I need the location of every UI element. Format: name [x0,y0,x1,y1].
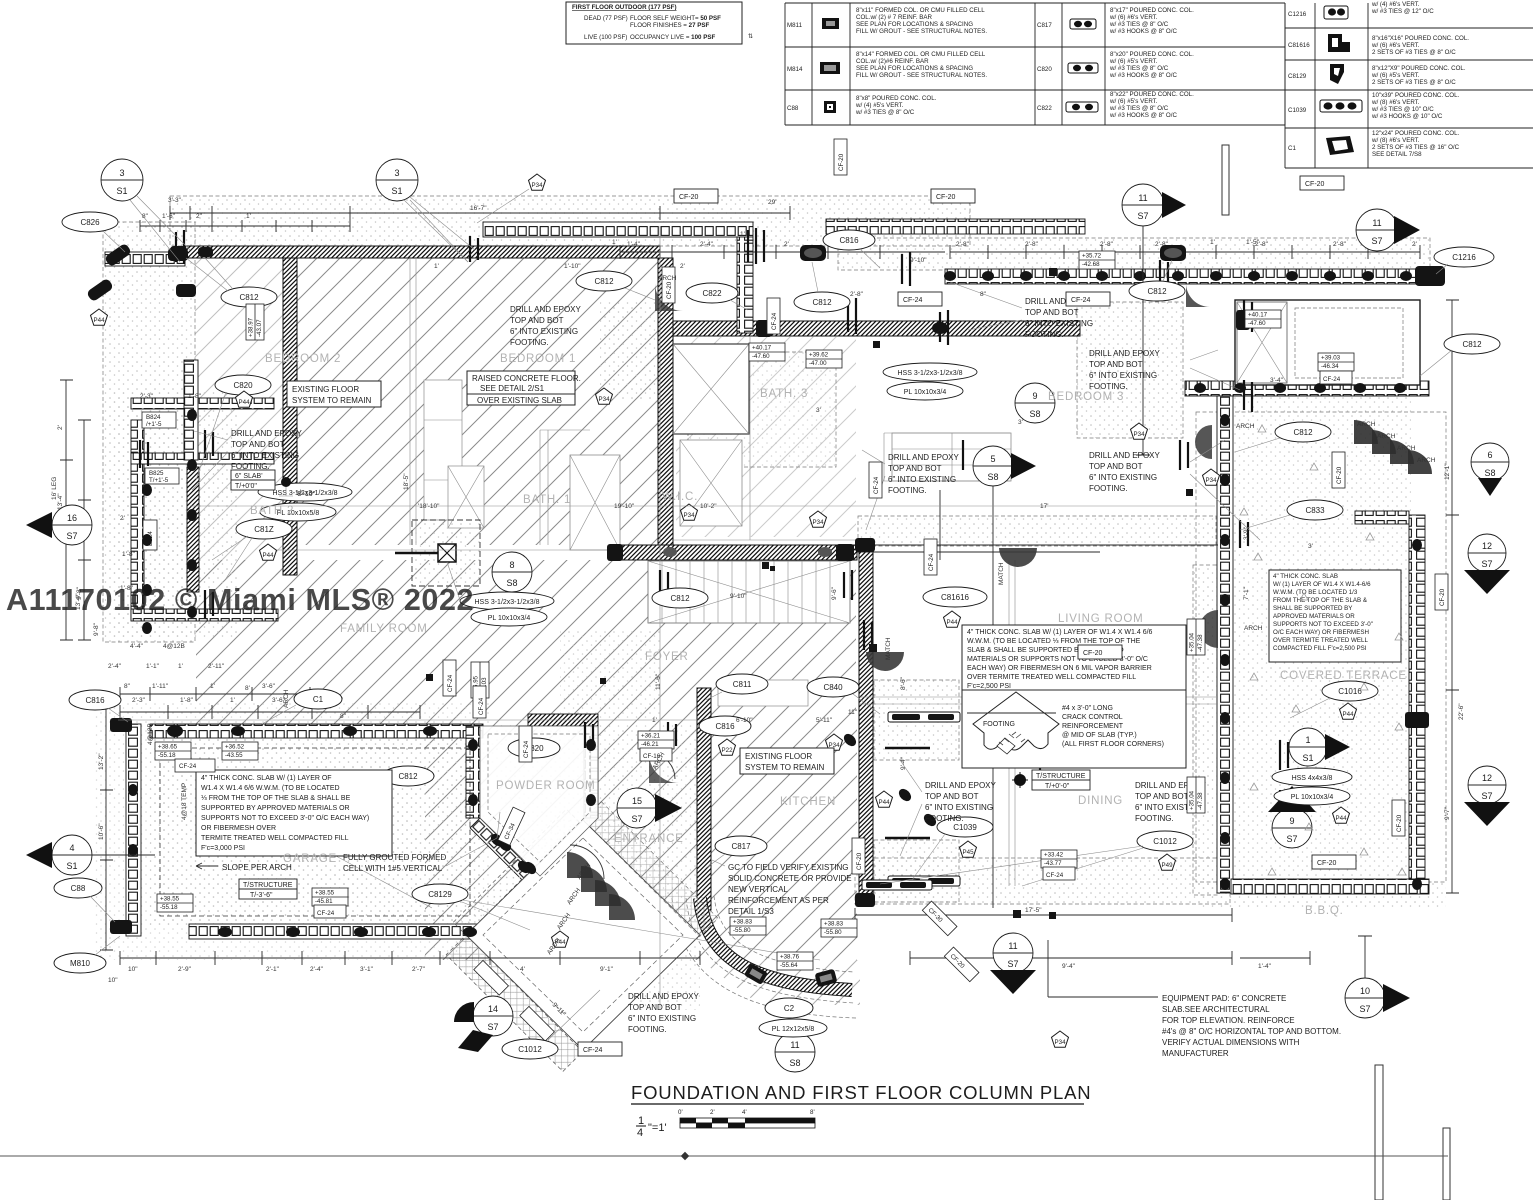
gc note [712,860,852,916]
svg-text:1'-8": 1'-8" [180,697,194,704]
svg-text:8': 8' [810,1109,815,1116]
svg-text:CF-20: CF-20 [666,281,673,299]
svg-text:GC TO FIELD VERIFY EXISTING: GC TO FIELD VERIFY EXISTING [728,863,848,872]
svg-text:DINING: DINING [1078,795,1123,807]
svg-text:+35.72: +35.72 [1082,253,1102,260]
svg-text:w/ #3 TIES @ 8" O/C: w/ #3 TIES @ 8" O/C [1109,21,1169,28]
svg-text:COL.w/ (2)#6 REINF. BAR: COL.w/ (2)#6 REINF. BAR [856,58,929,65]
svg-text:PL 10x10x3/4: PL 10x10x3/4 [1291,794,1334,801]
svg-text:P44: P44 [238,399,250,406]
svg-text:C81616: C81616 [1288,42,1310,49]
svg-text:CF-20: CF-20 [1439,588,1446,606]
svg-text:DRILL AND EPOXY: DRILL AND EPOXY [1089,451,1161,460]
svg-text:BEDROOM 3: BEDROOM 3 [1048,391,1124,403]
svg-text:w/ (6) #6's VERT.: w/ (6) #6's VERT. [1371,42,1420,49]
svg-text:CF-24: CF-24 [1323,376,1341,383]
garage top dims [120,705,420,719]
svg-text:6" INTO EXISTING: 6" INTO EXISTING [231,451,299,460]
svg-text:17'-5": 17'-5" [1025,907,1042,914]
svg-text:T/+0'0": T/+0'0" [235,483,257,490]
LAYER: labels [51,231,1436,1018]
section circle 11/S7 right-top [1356,209,1420,251]
svg-text:1': 1' [210,683,215,690]
section circle 11/S7 center-top [1122,184,1186,455]
svg-text:OVER EXISTING SLAB: OVER EXISTING SLAB [477,396,562,405]
section circle 9/S7 [1268,786,1316,848]
svg-text:CF-24: CF-24 [928,553,935,571]
section circle 11/S7 bottom [990,933,1036,994]
svg-text:CF-20: CF-20 [856,852,863,870]
columns W13 vertical [1412,539,1422,551]
svg-text:S7: S7 [1286,834,1297,844]
LAYER: dots [95,196,1446,1010]
svg-text:CELL WITH 1#5 VERTICAL: CELL WITH 1#5 VERTICAL [343,864,443,873]
dim row top right [950,245,1420,259]
svg-text:DRILL AND EPOXY: DRILL AND EPOXY [231,429,303,438]
svg-text:10: 10 [1360,986,1370,996]
svg-text:MANUFACTURER: MANUFACTURER [1162,1049,1229,1058]
arch arc top wic [655,283,683,311]
svg-text:TOP AND BOT: TOP AND BOT [231,440,285,449]
big corner columns top right [1415,266,1445,286]
svg-text:'8'-10": '8'-10" [296,491,316,498]
section cut line left [410,200,468,262]
elevation tags [1079,251,1115,269]
left vert dim [60,380,73,640]
columns bedroom3 bottom band [1194,383,1206,393]
wall left W2 [283,258,297,575]
slope per arch [196,863,292,872]
svg-text:FROM THE TOP OF THE SLAB &: FROM THE TOP OF THE SLAB & [1273,597,1368,604]
svg-text:S8: S8 [1029,409,1040,419]
svg-text:w/ #3 HOOKS @ 8" O/C: w/ #3 HOOKS @ 8" O/C [1109,28,1177,35]
drill note 3 [950,282,1097,339]
svg-text:T/+1'-5: T/+1'-5 [149,477,169,484]
svg-text:9: 9 [1289,816,1294,826]
svg-text:4" THICK CONC. SLAB: 4" THICK CONC. SLAB [1273,573,1338,580]
svg-text:ARCH: ARCH [1377,433,1396,440]
cells garage left vertical [126,724,141,936]
LAYER: title [631,1082,1091,1139]
svg-text:C812: C812 [1462,340,1482,349]
svg-text:GARAGE: GARAGE [283,853,337,865]
svg-text:1': 1' [612,239,617,246]
svg-text:ENTRANCE: ENTRANCE [614,833,684,845]
top-right room square [1235,300,1420,385]
svg-text:-55.18: -55.18 [158,752,176,759]
svg-text:C81Z: C81Z [254,525,274,534]
svg-text:OR FIBERMESH OVER: OR FIBERMESH OVER [201,825,276,832]
svg-text:SUPPORTED BY APPROVED MATERIAL: SUPPORTED BY APPROVED MATERIALS OR [201,805,350,812]
svg-text:9'-4": 9'-4" [1062,963,1076,970]
svg-text:8": 8" [980,291,987,298]
svg-text:S7: S7 [66,531,77,541]
svg-text:S7: S7 [1359,1004,1370,1014]
svg-text:(ALL FIRST FLOOR CORNERS): (ALL FIRST FLOOR CORNERS) [1062,741,1164,748]
wic lines [673,336,860,540]
svg-text:CF-24: CF-24 [523,740,530,758]
existing floor box 2 [740,748,834,774]
left vert garage dim [100,700,113,950]
svg-text:C826: C826 [80,218,100,227]
svg-text:-43.77: -43.77 [1044,860,1062,867]
svg-text:PL 10x10x3/4: PL 10x10x3/4 [904,389,947,396]
section circle 15/S7 [617,788,682,828]
6" slab box [231,470,316,498]
cells band B1 vert [737,237,753,333]
svg-text:C88: C88 [71,884,86,893]
svg-text:0': 0' [678,1109,683,1116]
svg-text:+36.21: +36.21 [641,733,661,740]
svg-text:HSS 3-1/2x3-1/2x3/8: HSS 3-1/2x3-1/2x3/8 [898,370,963,377]
dim line top main [170,206,790,220]
svg-text:12'-1": 12'-1" [1444,463,1451,480]
garage interior stipple [150,738,480,928]
svg-text:C817: C817 [731,842,751,851]
cells left mid rows [131,398,274,409]
svg-text:w/ (4) #5's VERT.: w/ (4) #5's VERT. [855,102,904,109]
svg-text:CRACK CONTROL: CRACK CONTROL [1062,714,1123,721]
svg-text:3: 3 [119,168,124,178]
wall bath3 top W7 [673,321,1080,336]
entrance bottom columns on curve [744,963,768,985]
svg-text:2'-4": 2'-4" [108,663,122,670]
svg-text:2": 2" [196,213,203,220]
dim line top sub [140,220,350,232]
svg-text:w/ #3 TIES @ 8" O/C: w/ #3 TIES @ 8" O/C [855,109,915,116]
svg-text:3'-4": 3'-4" [1270,377,1284,384]
svg-text:DRILL AND EPOXY: DRILL AND EPOXY [888,453,960,462]
terrace outer dash frame [1196,412,1446,882]
svg-text:+40.17: +40.17 [752,345,772,352]
svg-text:C1012: C1012 [518,1045,542,1054]
svg-text:1'-8": 1'-8" [122,551,136,558]
svg-text:ARCH: ARCH [283,689,290,708]
svg-text:C1039: C1039 [1288,107,1307,114]
LAYER: floorhatch [195,258,860,1005]
svg-text:F'c=2,500 PSI: F'c=2,500 PSI [967,683,1011,690]
svg-text:MATCH: MATCH [885,637,892,660]
svg-text:S7: S7 [1371,236,1382,246]
svg-text:C88: C88 [787,105,799,112]
svg-text:-55.80: -55.80 [824,929,842,936]
garage outer stipple [95,700,490,960]
svg-text:ARCH: ARCH [658,275,677,282]
floor hatch kitchen / entrance block [425,724,857,960]
svg-text:P44: P44 [878,799,890,806]
bedroom1 dotted patch [600,300,660,400]
svg-text:ARCH: ARCH [1236,423,1255,430]
svg-text:DRILL AND EPOXY: DRILL AND EPOXY [628,992,700,1001]
svg-text:TOP AND BOT: TOP AND BOT [628,1003,682,1012]
svg-text:-55.80: -55.80 [733,927,751,934]
svg-text:SEE DETAIL 2/S1: SEE DETAIL 2/S1 [480,384,545,393]
svg-text:w/ #3 TIES @ 12" O/C: w/ #3 TIES @ 12" O/C [1371,8,1434,15]
powder room octagon [480,726,598,876]
svg-text:CF-24: CF-24 [179,763,197,770]
svg-text:T/STRUCTURE: T/STRUCTURE [243,882,293,889]
svg-text:-47.00: -47.00 [809,360,827,367]
svg-text:19'-10": 19'-10" [614,503,635,510]
columns at W10 [855,538,875,552]
floor hatch bedroom2+bedroom1 block [297,258,658,545]
living room long lines [858,697,1218,704]
columns on W6 cells row [944,271,956,281]
wall interior W9 [610,545,857,560]
svg-text:C820: C820 [1037,66,1052,73]
cells garage bottom [189,924,483,939]
svg-text:ARCH: ARCH [1357,421,1376,428]
svg-text:+36.52: +36.52 [225,744,245,751]
svg-text:DRILL AND EPOXY: DRILL AND EPOXY [1089,349,1161,358]
svg-text:2 SETS OF #3 TIES @ 16" O/C: 2 SETS OF #3 TIES @ 16" O/C [1372,144,1460,151]
drill note 7 [900,760,997,856]
dim row mid cells [620,245,945,259]
svg-text:1'-4": 1'-4" [627,241,641,248]
svg-text:P44: P44 [262,552,274,559]
svg-text:TERMITE TREATED WELL COMPACTED: TERMITE TREATED WELL COMPACTED FILL [201,835,349,842]
svg-text:10": 10" [108,977,118,984]
t/structure dining [1012,770,1090,790]
columns garage left [110,718,132,732]
powder diag cells lower-left [470,818,542,890]
svg-text:SEE PLAN FOR LOCATIONS & SPACI: SEE PLAN FOR LOCATIONS & SPACING [856,21,973,28]
svg-text:/+1'-5: /+1'-5 [146,421,162,428]
svg-text:C840: C840 [823,683,843,692]
svg-text:-43.55: -43.55 [225,752,243,759]
fully grouted note [343,812,500,873]
floor hatch bath3 strip light [676,337,856,537]
svg-text:TOP AND BOT: TOP AND BOT [1025,308,1079,317]
svg-text:ARCH: ARCH [1397,445,1416,452]
svg-text:CF-20: CF-20 [936,194,956,201]
svg-text:+38.97: +38.97 [248,317,255,337]
section circle 12/S7 b [1464,766,1510,826]
svg-text:w/ #3 HOOKS @ 8" O/C: w/ #3 HOOKS @ 8" O/C [1109,72,1177,79]
svg-text:REINFORCEMENT AS PER: REINFORCEMENT AS PER [728,896,829,905]
load table [566,2,742,44]
svg-text:w/ #3 TIES @ 10" O/C: w/ #3 TIES @ 10" O/C [1371,106,1434,113]
svg-text:2'-11": 2'-11" [208,663,225,670]
svg-text:+38.76: +38.76 [780,954,800,961]
table 3 [1285,3,1533,168]
table 1 [785,3,1035,125]
svg-text:P22: P22 [721,747,733,754]
svg-text:BATH. 1: BATH. 1 [523,494,571,506]
pentagon P34 top [477,174,546,223]
svg-text:TOP AND BOT: TOP AND BOT [1135,792,1189,801]
svg-text:3': 3' [1308,543,1313,550]
svg-text:P49: P49 [1161,862,1173,869]
cells long top right W6 [945,269,1419,284]
cells left mid vertical a [131,420,144,620]
bottom dims dining [855,908,1232,922]
svg-text:C812: C812 [1293,428,1313,437]
svg-text:+38.83: +38.83 [824,921,844,928]
section cut line center [659,226,661,1010]
svg-text:FILL W/ GROUT - SEE STRUCTURAL: FILL W/ GROUT - SEE STRUCTURAL NOTES. [856,28,987,35]
svg-text:COMPACTED FILL F'c=2,500 PSI: COMPACTED FILL F'c=2,500 PSI [1273,645,1367,652]
svg-text:COVERED TERRACE: COVERED TERRACE [1280,670,1407,682]
columns left mid strips [142,484,152,496]
svg-text:+35.04: +35.04 [1189,632,1196,652]
section circle 3/S1 b [376,159,475,262]
svg-text:10'-2": 10'-2" [700,503,717,510]
svg-text:S8: S8 [987,472,998,482]
svg-text:2'-8": 2'-8" [1333,241,1347,248]
svg-text:RAISED CONCRETE FLOOR.: RAISED CONCRETE FLOOR. [472,374,581,383]
svg-text:@ MID OF SLAB (TYP.): @ MID OF SLAB (TYP.) [1062,732,1137,739]
svg-text:2'-4": 2'-4" [700,241,714,248]
svg-text:S7: S7 [487,1022,498,1032]
svg-text:C811: C811 [733,680,752,689]
bath1 fixtures [892,433,1011,481]
svg-text:DEAD (77 PSF): DEAD (77 PSF) [584,15,628,22]
svg-text:F'c=3,000 PSI: F'c=3,000 PSI [201,845,245,852]
bedroom3 dotted patch [1077,302,1183,438]
svg-text:C1: C1 [1288,145,1296,152]
svg-text:CF-20: CF-20 [1396,814,1403,832]
svg-text:'18'-10": '18'-10" [418,503,440,510]
hatch strip left mid [187,467,199,592]
svg-text:8"x14" FORMED COL. OR CMU FILL: 8"x14" FORMED COL. OR CMU FILLED CELL [856,51,986,58]
svg-text:SEE PLAN FOR LOCATIONS & SPACI: SEE PLAN FOR LOCATIONS & SPACING [856,65,973,72]
sheet strip top right [1222,145,1229,215]
svg-text:M811: M811 [787,22,803,29]
svg-text:P34: P34 [1054,1039,1066,1046]
svg-text:1'-4": 1'-4" [1258,963,1272,970]
wall wic-left W8 [658,258,673,560]
svg-text:FOOTING.: FOOTING. [1089,484,1128,493]
svg-text:BATH 2: BATH 2 [250,505,294,517]
svg-text:-45.81: -45.81 [315,898,333,905]
section circle 6/S8 [1471,443,1509,496]
svg-text:OCCUPANCY LIVE = 100 PSF: OCCUPANCY LIVE = 100 PSF [630,34,715,41]
svg-text:CF-24: CF-24 [903,297,923,304]
svg-text:CF-24: CF-24 [583,1047,603,1054]
svg-text:6: 6 [1487,450,1492,460]
svg-text:2': 2' [120,515,125,522]
svg-text:TOP AND BOT: TOP AND BOT [888,464,942,473]
svg-text:FOOTING.: FOOTING. [1025,330,1064,339]
svg-text:SYSTEM TO REMAIN: SYSTEM TO REMAIN [292,396,371,405]
svg-text:BEDROOM 1: BEDROOM 1 [500,353,576,365]
svg-text:C812: C812 [812,298,832,307]
bedroom3 left dotted [688,352,836,467]
arch semicircle W12 a [1195,425,1212,459]
svg-text:2'-3": 2'-3" [140,393,154,400]
svg-text:P34: P34 [1133,431,1145,438]
powder room top wall [528,714,598,726]
bedroom divider thin wall [410,258,416,545]
svg-text:S7: S7 [1007,959,1018,969]
drill note 4 [1089,349,1240,391]
svg-text:LIVE (100 PSF): LIVE (100 PSF) [584,34,627,41]
svg-text:-55.18: -55.18 [160,904,178,911]
section circle 5/S8 [973,446,1036,908]
svg-text:C1: C1 [313,695,324,704]
ellipse callouts [62,212,125,252]
svg-text:4@18 TEMP: 4@18 TEMP [181,783,188,820]
covered terrace stipple [1233,397,1411,893]
svg-text:2'-8": 2'-8" [956,241,970,248]
wall top W1 [184,246,660,258]
svg-text:2'-8": 2'-8" [850,291,864,298]
svg-text:-47.38: -47.38 [1197,634,1204,652]
table 2 [1035,3,1285,125]
rebar ticks on top wall [140,228,1288,838]
kitchen right beams dotted [874,680,959,760]
svg-text:FOOTING.: FOOTING. [628,1025,667,1034]
svg-text:⅓ FROM THE TOP OF THE SLAB & S: ⅓ FROM THE TOP OF THE SLAB & SHALL BE [201,795,351,802]
svg-text:1'-5": 1'-5" [1246,239,1260,246]
existing floor box 1 [287,381,381,407]
svg-text:6" INTO EXISTING: 6" INTO EXISTING [1089,473,1157,482]
svg-text:+33.42: +33.42 [1044,852,1064,859]
footing stipple left mid block [113,390,238,640]
svg-text:SUPPORTS NOT TO EXCEED 3'-0" O: SUPPORTS NOT TO EXCEED 3'-0" O/C EACH WA… [201,815,369,822]
svg-text:FOOTING.: FOOTING. [510,338,549,347]
svg-text:2'-4": 2'-4" [310,966,324,973]
interior wall thin continuation to living room [857,545,1218,552]
svg-text:1'-8": 1'-8" [188,393,202,400]
entrance diamond white [466,820,700,1050]
drill note 5 [862,450,960,530]
match semicircle kitchen [866,652,904,671]
svg-text:EACH WAY) OR FIBERMESH ON 6 MI: EACH WAY) OR FIBERMESH ON 6 MIL VAPOR BA… [967,665,1152,672]
svg-text:C2: C2 [784,1004,795,1013]
svg-text:C816: C816 [85,696,105,705]
section circle 4/S1 [26,835,155,875]
svg-text:C1012: C1012 [1153,837,1177,846]
svg-text:-55.64: -55.64 [780,962,798,969]
svg-text:1': 1' [246,213,251,220]
svg-text:4': 4' [742,1109,747,1116]
left vert dim2 [78,420,91,640]
svg-text:C816: C816 [715,722,735,731]
svg-text:2'-1": 2'-1" [266,966,280,973]
svg-text:2': 2' [1412,241,1417,248]
svg-text:HSS 3-1/2x3-1/2x3/8: HSS 3-1/2x3-1/2x3/8 [475,599,540,606]
garage inner dash frame [160,748,470,916]
svg-text:8"x22" POURED CONC. COL.: 8"x22" POURED CONC. COL. [1110,91,1194,98]
svg-text:2': 2' [57,425,64,430]
entrance / powder room stipple [480,724,700,1010]
svg-text:6" INTO EXISTING: 6" INTO EXISTING [1025,319,1093,328]
cells terrace left vertical W12 [1217,396,1233,893]
svg-text:FULLY GROUTED FORMED: FULLY GROUTED FORMED [343,853,446,862]
svg-text:C822: C822 [1037,105,1052,112]
svg-text:11: 11 [790,1040,799,1050]
svg-text:FAMILY ROOM: FAMILY ROOM [340,623,428,635]
svg-text:P34: P34 [683,512,695,519]
svg-text:w/ (8) #6's VERT.: w/ (8) #6's VERT. [1371,99,1420,106]
svg-text:1: 1 [1305,735,1310,745]
svg-text:9'-10": 9'-10" [910,257,927,264]
svg-text:w/ #3 HOOKS @ 8" O/C: w/ #3 HOOKS @ 8" O/C [1109,112,1177,119]
svg-text:8'-6": 8'-6" [900,676,907,690]
svg-text:S7: S7 [1137,211,1148,221]
entrance dotted band upper-left [453,809,579,935]
svg-text:8"x17" POURED CONC. COL.: 8"x17" POURED CONC. COL. [1110,7,1194,14]
svg-text:S1: S1 [116,186,127,196]
cells terrace right vertical W13 [1409,515,1425,893]
sheet strip bottom right [1375,1065,1383,1200]
bath1 vanity lines [884,433,1010,481]
powder columns [468,739,478,751]
svg-text:16' LEG: 16' LEG [51,477,58,500]
svg-text:KITCHEN: KITCHEN [780,796,836,808]
